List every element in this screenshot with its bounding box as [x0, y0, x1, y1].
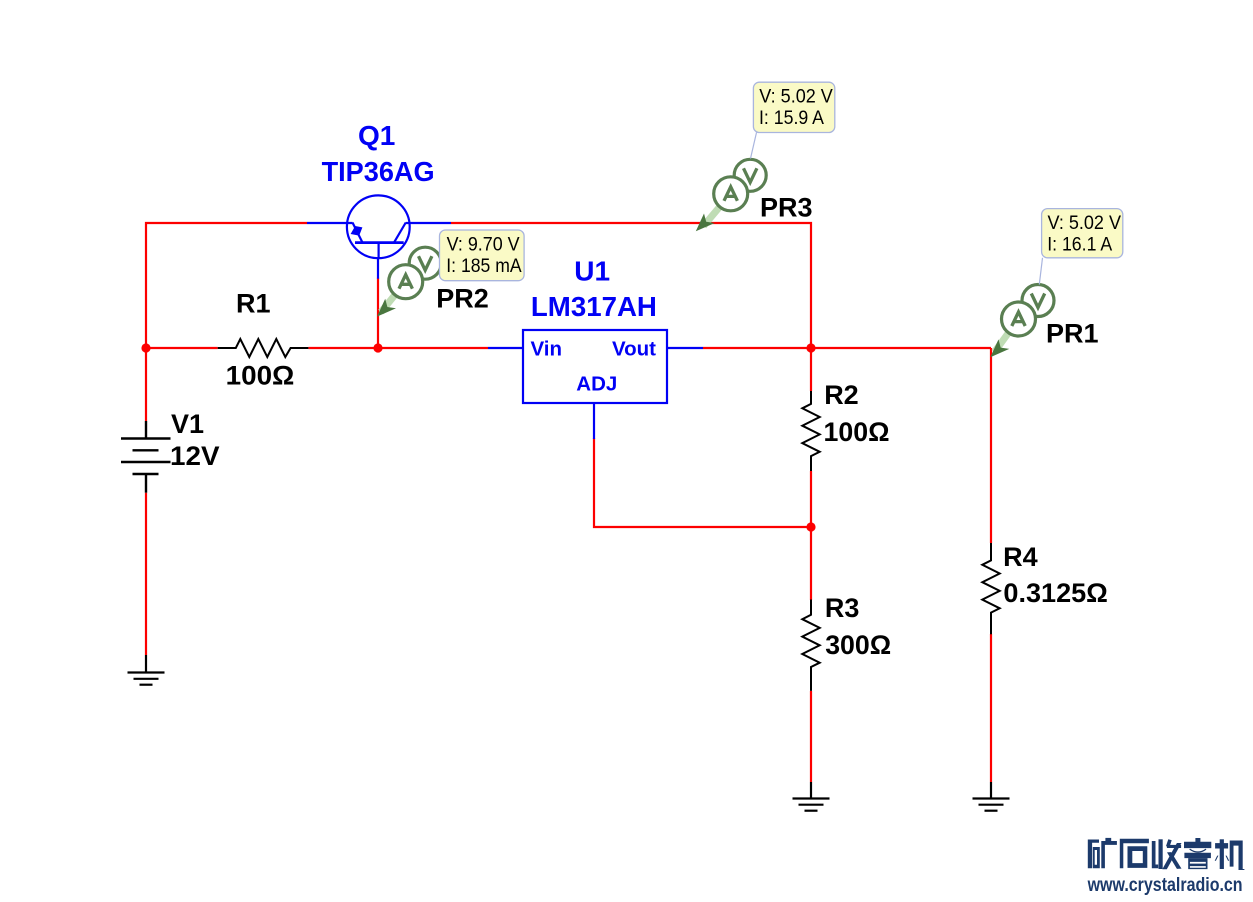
svg-text:Vin: Vin	[531, 337, 563, 360]
svg-text:V: 9.70 V: V: 9.70 V	[447, 234, 520, 256]
svg-text:100Ω: 100Ω	[226, 360, 295, 390]
svg-text:www.crystalradio.cn: www.crystalradio.cn	[1087, 875, 1243, 896]
svg-text:TIP36AG: TIP36AG	[322, 156, 435, 187]
svg-text:Q1: Q1	[358, 120, 395, 151]
svg-text:I: 185 mA: I: 185 mA	[446, 255, 521, 277]
svg-text:R3: R3	[825, 593, 860, 623]
svg-text:R1: R1	[236, 289, 271, 319]
svg-text:V1: V1	[171, 409, 204, 439]
svg-text:PR1: PR1	[1046, 319, 1099, 349]
svg-text:PR3: PR3	[760, 193, 813, 223]
svg-text:I: 16.1 A: I: 16.1 A	[1047, 233, 1112, 255]
svg-text:R4: R4	[1003, 542, 1038, 572]
svg-text:ADJ: ADJ	[576, 373, 617, 396]
svg-text:100Ω: 100Ω	[824, 417, 890, 447]
svg-text:0.3125Ω: 0.3125Ω	[1003, 578, 1108, 608]
svg-text:Vout: Vout	[612, 337, 656, 360]
svg-text:I: 15.9 A: I: 15.9 A	[759, 107, 824, 129]
svg-text:R2: R2	[824, 380, 859, 410]
svg-text:300Ω: 300Ω	[825, 630, 891, 660]
svg-text:V: 5.02 V: V: 5.02 V	[759, 86, 833, 108]
svg-text:V: 5.02 V: V: 5.02 V	[1048, 212, 1122, 234]
svg-text:U1: U1	[574, 256, 610, 287]
svg-text:12V: 12V	[170, 441, 220, 471]
svg-text:PR2: PR2	[436, 283, 489, 313]
svg-text:LM317AH: LM317AH	[531, 291, 657, 322]
